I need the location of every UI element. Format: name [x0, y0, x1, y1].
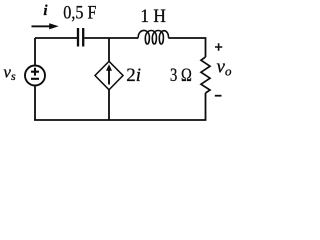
- wire top-left segment: [35, 37, 77, 39]
- inductor L 1 H coil: [138, 30, 168, 44]
- output plus sign: [215, 43, 222, 50]
- vs minus sign: [31, 78, 39, 80]
- resistor R 3 ohm zigzag: [201, 57, 210, 93]
- svg-text:2i: 2i: [126, 65, 141, 86]
- dependent source arrow: [106, 64, 112, 84]
- svg-text:3 Ω: 3 Ω: [170, 65, 192, 86]
- wire bottom: [34, 119, 206, 121]
- wire left upper: [34, 38, 36, 66]
- wire middle lower: [108, 90, 110, 121]
- svg-text:vo: vo: [217, 57, 232, 79]
- svg-text:vs: vs: [3, 63, 16, 84]
- wire middle upper: [108, 38, 110, 62]
- output minus sign: [215, 95, 222, 97]
- svg-text:0,5 F: 0,5 F: [63, 3, 96, 24]
- wire top-right segment: [168, 38, 205, 57]
- svg-text:1 H: 1 H: [140, 6, 166, 27]
- svg-text:i: i: [43, 3, 48, 19]
- dependent source diamond: [95, 61, 123, 90]
- capacitor C 0,5 F plates: [78, 28, 83, 47]
- wire right lower: [205, 93, 207, 120]
- wire left lower: [34, 86, 36, 121]
- vs plus sign: [31, 68, 39, 76]
- current arrow i: [32, 23, 59, 29]
- voltage source vs circle: [25, 66, 45, 86]
- wire top-middle segment: [84, 37, 138, 39]
